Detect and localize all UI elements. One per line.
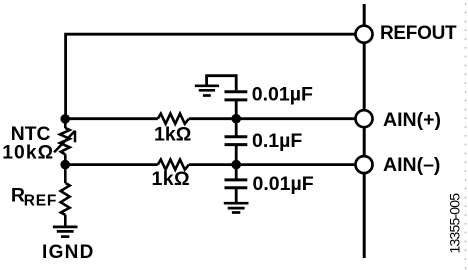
svg-text:0.01µF: 0.01µF [252, 84, 313, 106]
svg-text:0.01µF: 0.01µF [253, 173, 314, 195]
svg-text:1kΩ: 1kΩ [152, 168, 191, 190]
svg-text:REF: REF [24, 193, 57, 210]
svg-text:REFOUT: REFOUT [380, 23, 457, 44]
svg-text:0.1µF: 0.1µF [252, 130, 302, 152]
svg-text:10kΩ: 10kΩ [2, 143, 54, 164]
svg-text:13355-005: 13355-005 [446, 193, 462, 254]
svg-text:1kΩ: 1kΩ [154, 124, 191, 146]
svg-text:AIN(+): AIN(+) [383, 109, 441, 131]
svg-text:IGND: IGND [42, 242, 95, 263]
svg-text:AIN(–): AIN(–) [383, 154, 440, 176]
